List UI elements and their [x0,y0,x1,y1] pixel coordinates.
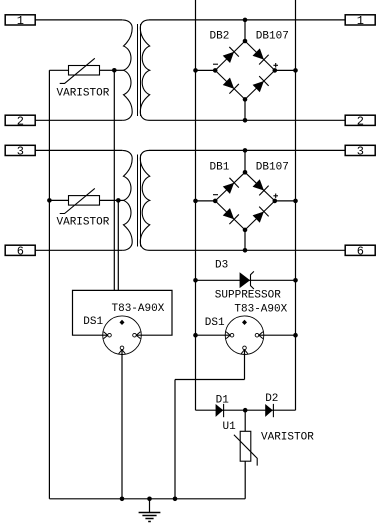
relay DS1 left pin bottom arrow [119,350,126,354]
wire relay DS1 right bottom jog vertical [174,380,176,499]
bridge DB2 diode top-left [222,47,239,64]
bridge DB1 node right vertex [273,199,278,204]
wire T1 secondary to terminal 1 right [149,19,345,21]
transformer T1 core [137,24,139,116]
svg-text:T83-A90X: T83-A90X [234,304,287,316]
node T1 tap junction [112,68,117,73]
svg-text:DB107: DB107 [256,162,289,174]
transformer T1 secondary winding [140,20,149,120]
terminal 1 left [5,14,35,28]
relay DS1 right pin right arrow [259,332,263,339]
bridge DB2 node right vertex [273,68,278,73]
bridge DB1 node bottom vertex [243,228,248,233]
ground [139,499,161,522]
wire relay DS1 right left pin to negative bus [196,334,231,336]
wire varistor RV1 left [49,69,68,71]
wire bridge DB1 bottom tap [244,230,246,250]
bridge DB2 node bottom vertex [243,97,248,102]
terminal 3 left [5,145,35,159]
wire terminal 2 left to T1 primary [35,119,122,121]
relay DS1 right pin left circle [230,333,234,337]
svg-text:DS1: DS1 [83,316,103,328]
wire T1 center tap [114,69,123,71]
bridge DB2 node left vertex [213,68,218,73]
diode D1 [216,404,224,417]
wire varistor RV2 right [100,199,119,201]
relay DS1 left socket circle [103,316,142,355]
wire relay DS1 left bottom pin drop [121,350,123,499]
wire U1 top [244,410,246,431]
svg-text:6: 6 [17,244,24,258]
svg-text:3: 3 [17,145,24,159]
wire T1 secondary to terminal 2 right [149,119,345,121]
bridge DB1 minus sign [213,194,218,196]
svg-text:SUPPRESSOR: SUPPRESSOR [215,290,281,302]
bridge DB2 plus sign [273,64,278,66]
node D1 D2 junction [243,408,248,413]
wire terminal 1 left to T1 primary [35,19,122,21]
node relay right drop junction [173,497,178,502]
bridge DB1 wire right vertex to positive bus [275,200,296,202]
terminal 2 left [5,114,35,128]
node T2 tap junction [116,198,121,203]
wire varistor RV2 left [49,199,68,201]
bridge DB2 wire left vertex to negative bus [196,69,216,71]
bridge DB1 node negative bus junction [193,199,198,204]
node bridge DB1 top tap junction [243,148,248,153]
transformer T2 core [137,155,139,247]
wire T2 secondary to terminal 6 right [149,249,345,251]
diode D3 suppressor [240,271,254,289]
bridge DB1 node positive bus junction [293,199,298,204]
node D3 right junction [293,278,298,283]
bridge DB2 minus sign [213,63,218,65]
diode D2 [266,404,274,417]
terminal 6 left [5,244,35,258]
varistor RV1 (top) [60,58,100,83]
node relay left pin bottom junction [120,497,125,502]
bridge DB2 node top vertex [243,39,248,44]
svg-text:6: 6 [357,244,364,258]
node relay DS1 right right junction [293,333,298,338]
bridge DB1 node top vertex [243,170,248,175]
bridge DB2 bridge arm top-left [215,41,245,70]
wire D3 horizontal [196,279,296,281]
relay DS1 left pin bottom circle [120,346,124,350]
wire left bus vertical [48,70,50,499]
bridge DB1 bridge arm top-left [215,172,245,201]
relay DS1 right pin left arrow [226,332,230,339]
bridge DB2 diode bottom-left [222,77,239,94]
relay DS1 right pin bottom arrow [241,350,248,354]
svg-text:3: 3 [357,145,364,159]
bridge DB1 diode top-left [222,178,239,195]
wire terminal 6 left to T2 primary [35,249,122,251]
svg-text:D2: D2 [265,393,278,405]
wire bridge DB2 top tap [244,20,246,41]
wire negative bus vertical [195,0,197,410]
bridge DB1 diode bottom-left [222,207,239,224]
bridge DB2 bridge arm bottom-right [245,70,275,99]
bridge DB1 wire left vertex to negative bus [196,200,216,202]
svg-text:D1: D1 [216,394,230,406]
relay DS1 right pin top (keying dot) [242,320,247,325]
bridge DB1 plus sign [273,195,278,197]
relay DS1 right pin right circle [255,333,259,337]
bridge DB2 node positive bus junction [293,68,298,73]
wire D1 D2 row [196,409,296,411]
varistor RV2 (middle) [60,188,100,213]
bridge DB1 bridge arm top-right [245,172,275,201]
svg-text:DB1: DB1 [210,162,230,174]
wire relay DS1 right bottom pin drop [244,350,246,380]
bridge DB1 diode top-right [252,178,269,195]
bridge DB1 node left vertex [213,199,218,204]
svg-text:U1: U1 [223,421,237,433]
wire bottom rail [49,498,245,500]
node varistor RV2 left junction [47,198,52,203]
bridge DB2 wire right vertex to positive bus [275,69,296,71]
bridge DB1 bridge arm bottom-right [245,201,275,230]
node bridge DB1 bottom tap junction [243,248,248,253]
bridge DB2 bridge arm bottom-left [215,70,245,99]
svg-text:2: 2 [17,114,24,128]
svg-text:DB107: DB107 [256,30,289,42]
svg-text:D3: D3 [215,260,228,272]
wire varistor RV1 right [100,69,115,71]
wire bridge DB2 bottom tap [244,99,246,120]
relay DS1 right socket circle [225,316,264,355]
wire T2 center tap [118,199,123,201]
node ground junction [147,497,152,502]
relay DS1 left pin right circle [133,333,137,337]
bridge DB1 bridge arm bottom-left [215,201,245,230]
relay DS1 right pin bottom circle [243,346,247,350]
wire relay DS1 right right pin to positive bus [259,334,296,336]
terminal 2 right [345,114,375,128]
relay DS1 left box [73,290,173,335]
wire bridge DB1 top tap [244,150,246,172]
varistor U1 [234,431,257,465]
bridge DB2 diode bottom-right [252,76,269,93]
wire T2 tap drop to relay box [117,200,119,290]
transformer T2 primary winding [122,150,132,250]
bridge DB2 node negative bus junction [193,68,198,73]
wire U1 bottom [244,461,246,499]
transformer T1 primary winding [122,20,132,120]
svg-text:T83-A90X: T83-A90X [112,303,165,315]
svg-text:VARISTOR: VARISTOR [57,217,110,229]
wire T1 tap drop to relay box [113,70,115,290]
terminal 1 right [345,14,375,28]
relay DS1 left pin right arrow [136,332,140,339]
terminal 6 right [345,244,375,258]
relay DS1 left pin left arrow [104,332,108,339]
svg-text:VARISTOR: VARISTOR [261,432,314,444]
svg-text:DB2: DB2 [210,30,230,42]
bridge DB2 diode top-right [252,47,269,64]
relay DS1 left pin top (keying dot) [120,320,125,325]
relay DS1 left pin left circle [108,333,112,337]
svg-text:VARISTOR: VARISTOR [57,88,110,100]
node bridge DB2 bottom tap junction [243,118,248,123]
wire T2 secondary to terminal 3 right [149,149,345,151]
bridge DB1 diode bottom-right [252,207,269,224]
wire positive bus vertical [295,0,297,410]
svg-text:DS1: DS1 [205,317,225,329]
node D3 left junction [193,278,198,283]
wire relay DS1 right bottom jog horizontal [175,379,245,381]
svg-text:2: 2 [357,114,364,128]
wire terminal 3 left to T2 primary [35,149,122,151]
svg-text:1: 1 [357,14,364,28]
node relay DS1 right left junction [193,333,198,338]
terminal 3 right [345,145,375,159]
transformer T2 secondary winding [140,150,149,250]
svg-text:1: 1 [17,14,24,28]
bridge DB2 bridge arm top-right [245,41,275,70]
node bridge DB2 top tap junction [243,18,248,23]
